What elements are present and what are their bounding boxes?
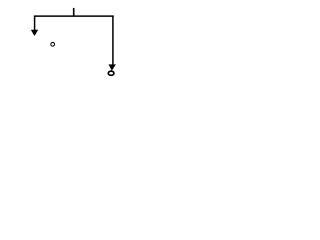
tick mark at branch midpoint [73,8,75,16]
wire: top horizontal branch [34,15,114,17]
arrowhead: right branch current direction [109,64,116,70]
node: small open circle [51,42,55,46]
wire: right vertical branch [112,16,114,65]
arrowhead: left branch current direction [31,30,38,36]
wire: left vertical branch [34,16,36,30]
node: open terminal circle at right branch end [108,71,114,75]
